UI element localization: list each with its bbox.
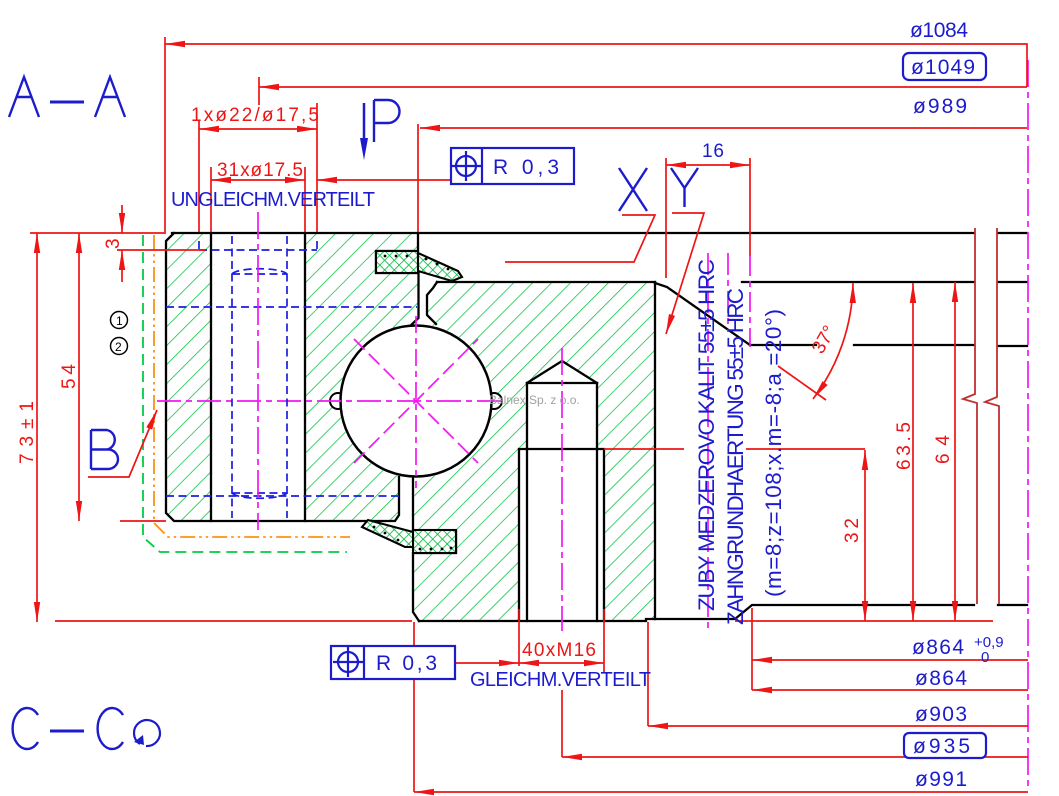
gear bottom faces (view) [655,605,1027,619]
bolt hole wall right [304,233,306,521]
extension lines 31xo17.5 [211,167,305,232]
svg-text:63.5: 63.5 [894,422,915,470]
svg-text:ø1084: ø1084 [910,19,968,42]
ball [341,326,492,477]
inner ring outline [166,233,399,521]
top face line [172,232,1027,234]
svg-text:3: 3 [103,238,124,249]
extension line y250 [117,249,205,251]
extension line y521 [120,520,166,522]
extension line o864 [751,608,753,690]
svg-text:0: 0 [981,649,989,666]
boxed dim o1049 [903,53,986,80]
M16 drill walls [527,383,597,621]
extension line o1084 [164,37,166,232]
seal groove upper (white) [376,251,418,273]
counterbore o22 hidden [199,241,317,250]
leader from frame2 [455,662,519,664]
hardening zone line magenta [707,253,709,630]
dim 32 line [864,450,866,621]
extension lines dim16 [666,158,750,278]
phantom line green dashed [143,235,347,552]
svg-text:1: 1 [116,314,123,328]
plug dome hidden [232,269,287,274]
label X [619,168,647,211]
leader Y [666,213,704,334]
outer ring top face [437,281,655,283]
view label A-A [9,77,125,117]
ball center star magenta [157,316,505,488]
svg-text:ZAHNGRUNDHAERTUNG 55±5 HRC: ZAHNGRUNDHAERTUNG 55±5 HRC [723,288,748,625]
dim 31xo17.5 line [211,179,305,181]
extension line bottom y621 [55,620,993,622]
svg-text:ø1049: ø1049 [911,56,975,79]
plug body hidden [232,236,287,518]
boxed dim o935 [904,733,986,758]
hidden line y496 [166,495,399,497]
hidden line y307 [166,306,417,308]
dim 3 arrows [121,205,123,233]
dim o989 line [420,127,1027,129]
leader B [88,410,157,477]
extension line o1049 [258,77,260,105]
svg-text:Balnex Sp. z o.o.: Balnex Sp. z o.o. [489,393,580,407]
rotation symbol (circle arrow) [134,720,160,746]
gear tip line [742,281,1027,283]
position number 2 [111,338,128,355]
dim o903 line [648,725,1028,727]
break line right (red zigzag) [985,228,999,604]
dim 73±1 line [36,233,38,622]
position number 1 [111,312,128,329]
svg-text:31xø17.5: 31xø17.5 [217,160,303,181]
label Y [671,168,698,207]
seal upper (wiper) [376,251,462,281]
svg-text:ZUBY MEDZEROVO KALIT 55±5 HRC: ZUBY MEDZEROVO KALIT 55±5 HRC [694,259,719,611]
dim o991 line [414,791,1028,793]
leader to frame1 [317,179,451,181]
view label C-C [13,708,123,749]
dim 64 line [954,282,956,621]
svg-text:UNGLEICHM.VERTEILT: UNGLEICHM.VERTEILT [171,189,375,211]
svg-text:40xM16: 40xM16 [522,640,596,661]
seal groove lower (white) [413,530,456,553]
extension lines 40xM16 [519,609,604,672]
hidden bolt hole lines (blue dashed) [166,236,417,518]
inner ring section (hatched) [166,233,419,521]
plug bowl hidden [232,493,287,498]
hardening underline 2 magenta [727,253,729,332]
seal lower (wiper) [362,520,456,553]
svg-text:R 0,3: R 0,3 [376,652,437,675]
dim o1084 line [165,44,1027,87]
dim 40xM16 line [519,662,604,664]
extension line thread depth y449 [604,448,865,450]
svg-text:R 0,3: R 0,3 [493,156,559,179]
extension line o935 [561,690,563,757]
leader X [505,215,655,262]
M16 hole centerline [561,348,563,631]
inner ring right edge / seal groove [376,233,419,326]
dim 63.5 line [912,283,914,621]
extension line o903 [647,622,649,726]
bolt hole centerline [257,212,259,530]
extension lines 1xo22 [199,103,317,232]
dim 16 line [666,164,750,166]
M16 tapped hole (white) [519,361,604,621]
dim 1xo22/o17,5 line [199,128,317,130]
bearing axis centerline (right) [1027,60,1029,790]
break line left (red zigzag) [963,228,977,604]
feature frame 1 [451,148,574,184]
label P with arrow [374,100,400,142]
M16 drill cone [527,361,597,383]
dim 54 line [78,233,80,521]
svg-text:(m=8;z=108;x.m=-8;a =20°): (m=8;z=108;x.m=-8;a =20°) [761,309,786,597]
outer ring bottom face [419,619,655,621]
svg-text:16: 16 [702,141,724,162]
gear tooth flank [655,283,750,345]
feature frame 2 [331,646,455,679]
tooth space centerline [749,256,751,347]
bolt hole wall left [210,233,212,521]
outer ring left edge lower [413,478,456,621]
phantom line orange dash-dot-dot [154,235,350,537]
svg-text:GLEICHM.VERTEILT: GLEICHM.VERTEILT [470,669,651,691]
angle 37 deg arc [813,283,853,399]
dim o864+0,9 line [752,659,1028,661]
extension line o991 [413,622,415,792]
outer ring section right edge [654,282,656,619]
raceway gap punch [339,324,493,478]
label B [91,430,118,469]
raceway relief notch left [330,393,346,409]
gear root line [750,345,1027,346]
extension line o989 [417,124,419,232]
dim o935 line [562,756,1028,758]
outer ring outline left [427,282,437,324]
dim o1049 line [259,86,1027,88]
bolt hole band (white, section through 1x hole) [211,233,305,521]
dim o864 line [752,689,1028,691]
extension line top face left [30,232,166,234]
M16 thread walls [519,449,604,621]
angle 37 flank extension [778,366,826,400]
svg-text:2: 2 [115,340,122,354]
raceway relief notch right [486,393,502,409]
outer ring section (hatched) [413,282,655,621]
